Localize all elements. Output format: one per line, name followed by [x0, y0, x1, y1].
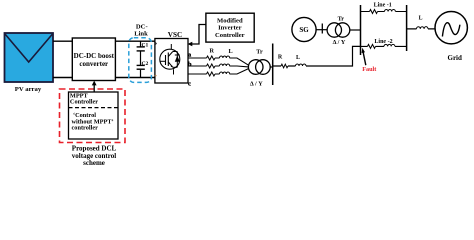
svg-text:R: R: [210, 48, 215, 55]
svg-text:controller: controller: [72, 125, 99, 132]
svg-text:DC-: DC-: [136, 23, 148, 30]
svg-text:Δ / Y: Δ / Y: [250, 80, 263, 87]
svg-text:Link: Link: [134, 31, 148, 38]
svg-text:C1: C1: [142, 42, 149, 48]
svg-text:Tr: Tr: [338, 16, 345, 23]
svg-text:SG: SG: [299, 26, 309, 34]
svg-text:Fault: Fault: [362, 66, 377, 73]
svg-text:Grid: Grid: [448, 54, 462, 62]
svg-text:L: L: [296, 55, 300, 61]
svg-text:Δ / Y: Δ / Y: [333, 39, 346, 46]
svg-text:Tr: Tr: [256, 49, 263, 56]
svg-text:C2: C2: [142, 61, 149, 67]
svg-text:L: L: [229, 48, 233, 55]
svg-text:Controller: Controller: [215, 32, 245, 39]
svg-text:Modified: Modified: [217, 17, 243, 24]
svg-text:converter: converter: [79, 60, 108, 68]
svg-text:VSC: VSC: [168, 31, 182, 39]
svg-text:Line -1: Line -1: [374, 2, 392, 8]
svg-text:L: L: [419, 16, 423, 22]
svg-text:PV array: PV array: [15, 86, 42, 93]
svg-text:scheme: scheme: [83, 159, 105, 167]
svg-text:Line -2: Line -2: [374, 39, 392, 45]
svg-text:Inverter: Inverter: [218, 25, 242, 32]
svg-text:Controller: Controller: [70, 99, 98, 106]
svg-text:b: b: [188, 61, 192, 68]
svg-text:R: R: [278, 55, 283, 61]
svg-text:c: c: [188, 80, 191, 87]
